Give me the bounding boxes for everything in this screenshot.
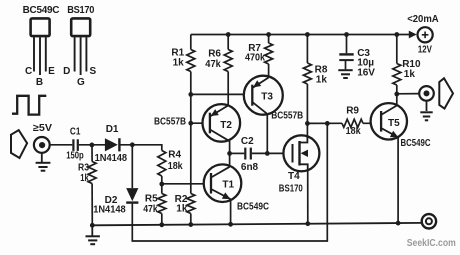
node C1/R3 junction: [90, 143, 95, 148]
svg-text:1k: 1k: [173, 58, 185, 69]
wire node to T2 base: [191, 122, 210, 124]
node T1 emitter ground: [228, 222, 233, 227]
package BC549C leg E: [45, 37, 47, 71]
svg-text:18k: 18k: [346, 126, 361, 137]
transistor T4 body: [283, 135, 319, 171]
wire D2 feedback down/right: [132, 123, 327, 241]
T5 emitter arrow: [390, 131, 398, 138]
svg-text:BS170: BS170: [279, 184, 303, 195]
ground (main): [86, 236, 100, 244]
resistor R5: [158, 194, 166, 214]
T5 base bar: [380, 111, 382, 132]
wire C3 to ground: [345, 60, 347, 69]
wire rail to R10: [396, 35, 398, 64]
wire R5 to ground rail: [161, 214, 163, 225]
svg-text:D1: D1: [106, 124, 119, 135]
svg-text:B: B: [36, 77, 43, 88]
wire rail to C3: [346, 35, 348, 54]
svg-text:BC549C: BC549C: [401, 138, 431, 149]
wire C2 to T4 gate: [252, 152, 293, 154]
T1 emitter arrow: [222, 192, 231, 199]
resistor R7: [265, 43, 273, 64]
package BC549C leg B: [39, 37, 41, 75]
svg-text:SeekIC.com: SeekIC.com: [407, 238, 456, 249]
T2 emitter line: [210, 105, 228, 116]
wire node to R9: [307, 122, 342, 124]
output jack ground stub: [426, 101, 428, 111]
top rail wire: [191, 34, 409, 36]
resistor R6: [224, 50, 232, 72]
ground output jack (bottom right): [422, 214, 436, 228]
T3 emitter arrow: [253, 80, 261, 87]
T3 base bar: [251, 85, 253, 106]
node T4 source ground: [305, 221, 310, 226]
wire jack to C1: [50, 144, 73, 146]
T1 base bar: [210, 173, 212, 194]
wire R9 to T5 base: [363, 122, 381, 124]
svg-text:C1: C1: [70, 127, 81, 138]
T1 collector line: [211, 167, 230, 178]
wire T3 collector down: [266, 114, 268, 154]
ground (output jack): [420, 112, 432, 120]
wire R2 to ground rail: [190, 214, 192, 225]
svg-text:1k: 1k: [80, 173, 89, 184]
supply terminal +12V: [418, 27, 433, 42]
resistor R1: [187, 50, 195, 72]
node R3 ground: [90, 223, 95, 228]
svg-text:12V: 12V: [418, 45, 432, 56]
svg-text:1N4148: 1N4148: [93, 204, 126, 215]
T3 emitter line: [252, 78, 268, 89]
svg-text:1N4148: 1N4148: [95, 153, 128, 164]
package BS170 leg S: [85, 37, 87, 71]
wire rail to R8: [306, 35, 308, 64]
svg-text:1k: 1k: [176, 204, 188, 215]
svg-text:BC557B: BC557B: [271, 111, 303, 122]
wire C1 to D1: [79, 144, 105, 146]
package BS170 leg D: [74, 37, 76, 71]
T4 gate bar: [292, 144, 294, 163]
T4 substrate arrow: [301, 150, 308, 157]
svg-text:T5: T5: [388, 118, 400, 129]
node R5 ground: [159, 222, 164, 227]
diode D1: [105, 138, 120, 151]
input signal arrow: [11, 130, 27, 158]
input jack J1: [34, 137, 50, 153]
transistor T1 body: [204, 164, 242, 202]
wire T1 base: [162, 183, 211, 185]
T2 emitter arrow: [211, 109, 219, 116]
wire node to R3: [91, 145, 93, 162]
T4 channel bar: [298, 141, 300, 166]
svg-text:T3: T3: [261, 91, 273, 102]
T5 emitter line: [381, 128, 398, 137]
node T2 base: [188, 121, 193, 126]
resistor R8: [303, 63, 311, 84]
capacitor C1: [73, 139, 77, 151]
node T3 collector / T4 gate: [265, 151, 270, 156]
resistor R10: [393, 64, 401, 86]
wire R4 to node: [161, 176, 163, 194]
svg-text:6n8: 6n8: [241, 162, 259, 173]
svg-text:47k: 47k: [205, 59, 221, 70]
node R7 top: [266, 32, 271, 37]
output jack J2: [419, 86, 434, 101]
svg-text:1k: 1k: [404, 69, 416, 80]
transistor T5 body: [371, 103, 407, 139]
T1 emitter wire to rail: [230, 199, 232, 224]
node R1/T3-base: [188, 92, 193, 97]
svg-text:R6: R6: [208, 49, 221, 60]
package drawing BS170 body: [71, 18, 90, 36]
resistor R9: [342, 119, 363, 127]
top rail corner to R1: [190, 35, 192, 50]
svg-text:BC557B: BC557B: [154, 117, 186, 128]
capacitor C3: [339, 54, 353, 60]
svg-text:150p: 150p: [66, 151, 84, 162]
wire to C2: [230, 152, 245, 154]
ground rail: [92, 223, 422, 225]
T1 emitter line: [211, 189, 231, 199]
wire node to T3 base: [191, 93, 253, 95]
node C2 left: [227, 151, 232, 156]
svg-text:T2: T2: [220, 120, 232, 131]
node R2 ground: [188, 222, 193, 227]
node R8/T4/R9: [305, 121, 310, 126]
package BC549C leg C: [33, 37, 35, 71]
package drawing BC549C body: [31, 18, 50, 36]
node R10/T5 collector: [394, 92, 399, 97]
svg-text:1k: 1k: [316, 75, 328, 86]
node R9 left / feedback: [325, 121, 330, 126]
svg-text:R9: R9: [346, 106, 359, 117]
svg-text:R3: R3: [78, 163, 89, 174]
T4 source inner: [300, 164, 308, 170]
transistor T3 body: [244, 76, 283, 115]
svg-text:C2: C2: [241, 136, 254, 147]
input jack ground stub: [41, 153, 43, 162]
T2 base bar: [209, 113, 211, 134]
svg-text:BC549C: BC549C: [237, 202, 269, 213]
svg-text:R5: R5: [145, 194, 158, 205]
wire rail to R6: [227, 35, 229, 50]
wire node to output jack: [397, 93, 420, 95]
T5 collector line: [381, 106, 397, 115]
svg-text:<20mA: <20mA: [407, 14, 439, 25]
svg-text:S: S: [89, 66, 96, 77]
wire R8 to T4 drain: [306, 84, 308, 123]
T5 emitter wire to rail: [397, 137, 399, 224]
ground (C3): [338, 70, 352, 78]
svg-text:R4: R4: [168, 150, 181, 161]
T4 drain wire: [306, 123, 308, 143]
ground stub bottom-left: [91, 225, 93, 235]
svg-text:18k: 18k: [168, 161, 183, 172]
node R4/R5/T1-base: [159, 182, 164, 187]
wire R3 to ground rail: [91, 184, 93, 226]
svg-text:G: G: [77, 77, 85, 88]
resistor R3: [88, 162, 96, 184]
svg-text:≥5V: ≥5V: [33, 123, 52, 134]
diode D2: [126, 188, 138, 203]
wire rail to R7: [268, 35, 270, 44]
wire R10 to node: [396, 85, 398, 106]
node C3 top: [344, 32, 349, 37]
wire R6 to T2 emitter: [227, 72, 229, 107]
svg-text:T4: T4: [288, 171, 300, 182]
square-wave symbol: [12, 96, 46, 115]
ground (input jack): [36, 163, 51, 171]
output signal arrow: [439, 78, 453, 108]
node R10 top: [394, 32, 399, 37]
svg-text:C: C: [25, 66, 32, 77]
svg-text:E: E: [48, 66, 55, 77]
transistor T2 body: [203, 104, 241, 142]
svg-text:47k: 47k: [143, 204, 158, 215]
node R8 top: [305, 32, 310, 37]
node R6 top: [226, 32, 231, 37]
svg-text:BC549C: BC549C: [23, 4, 60, 16]
wire node to D2: [131, 145, 133, 188]
svg-text:16V: 16V: [357, 67, 375, 78]
resistor R4: [158, 151, 166, 177]
svg-text:T1: T1: [222, 179, 234, 190]
wire R1 to R2 (through base nodes): [190, 72, 192, 194]
svg-text:BS170: BS170: [67, 4, 94, 16]
package BS170 leg G: [80, 37, 82, 75]
node T5 emitter ground: [396, 221, 401, 226]
node D1/D2 junction: [130, 142, 135, 147]
supply arrow: [409, 31, 417, 39]
T4 drain inner: [300, 136, 308, 143]
svg-text:470k: 470k: [245, 53, 265, 64]
svg-text:D: D: [63, 66, 70, 77]
T2 collector line: [210, 130, 230, 142]
wire D1 to R4 corner: [120, 145, 161, 151]
T4 source wire: [307, 164, 309, 223]
wire R7 to T3 emitter: [268, 64, 270, 78]
resistor R2: [187, 194, 195, 214]
wire T2 collector to T1 collector: [229, 141, 231, 168]
capacitor C2: [245, 148, 251, 160]
T3 collector line: [252, 102, 267, 114]
